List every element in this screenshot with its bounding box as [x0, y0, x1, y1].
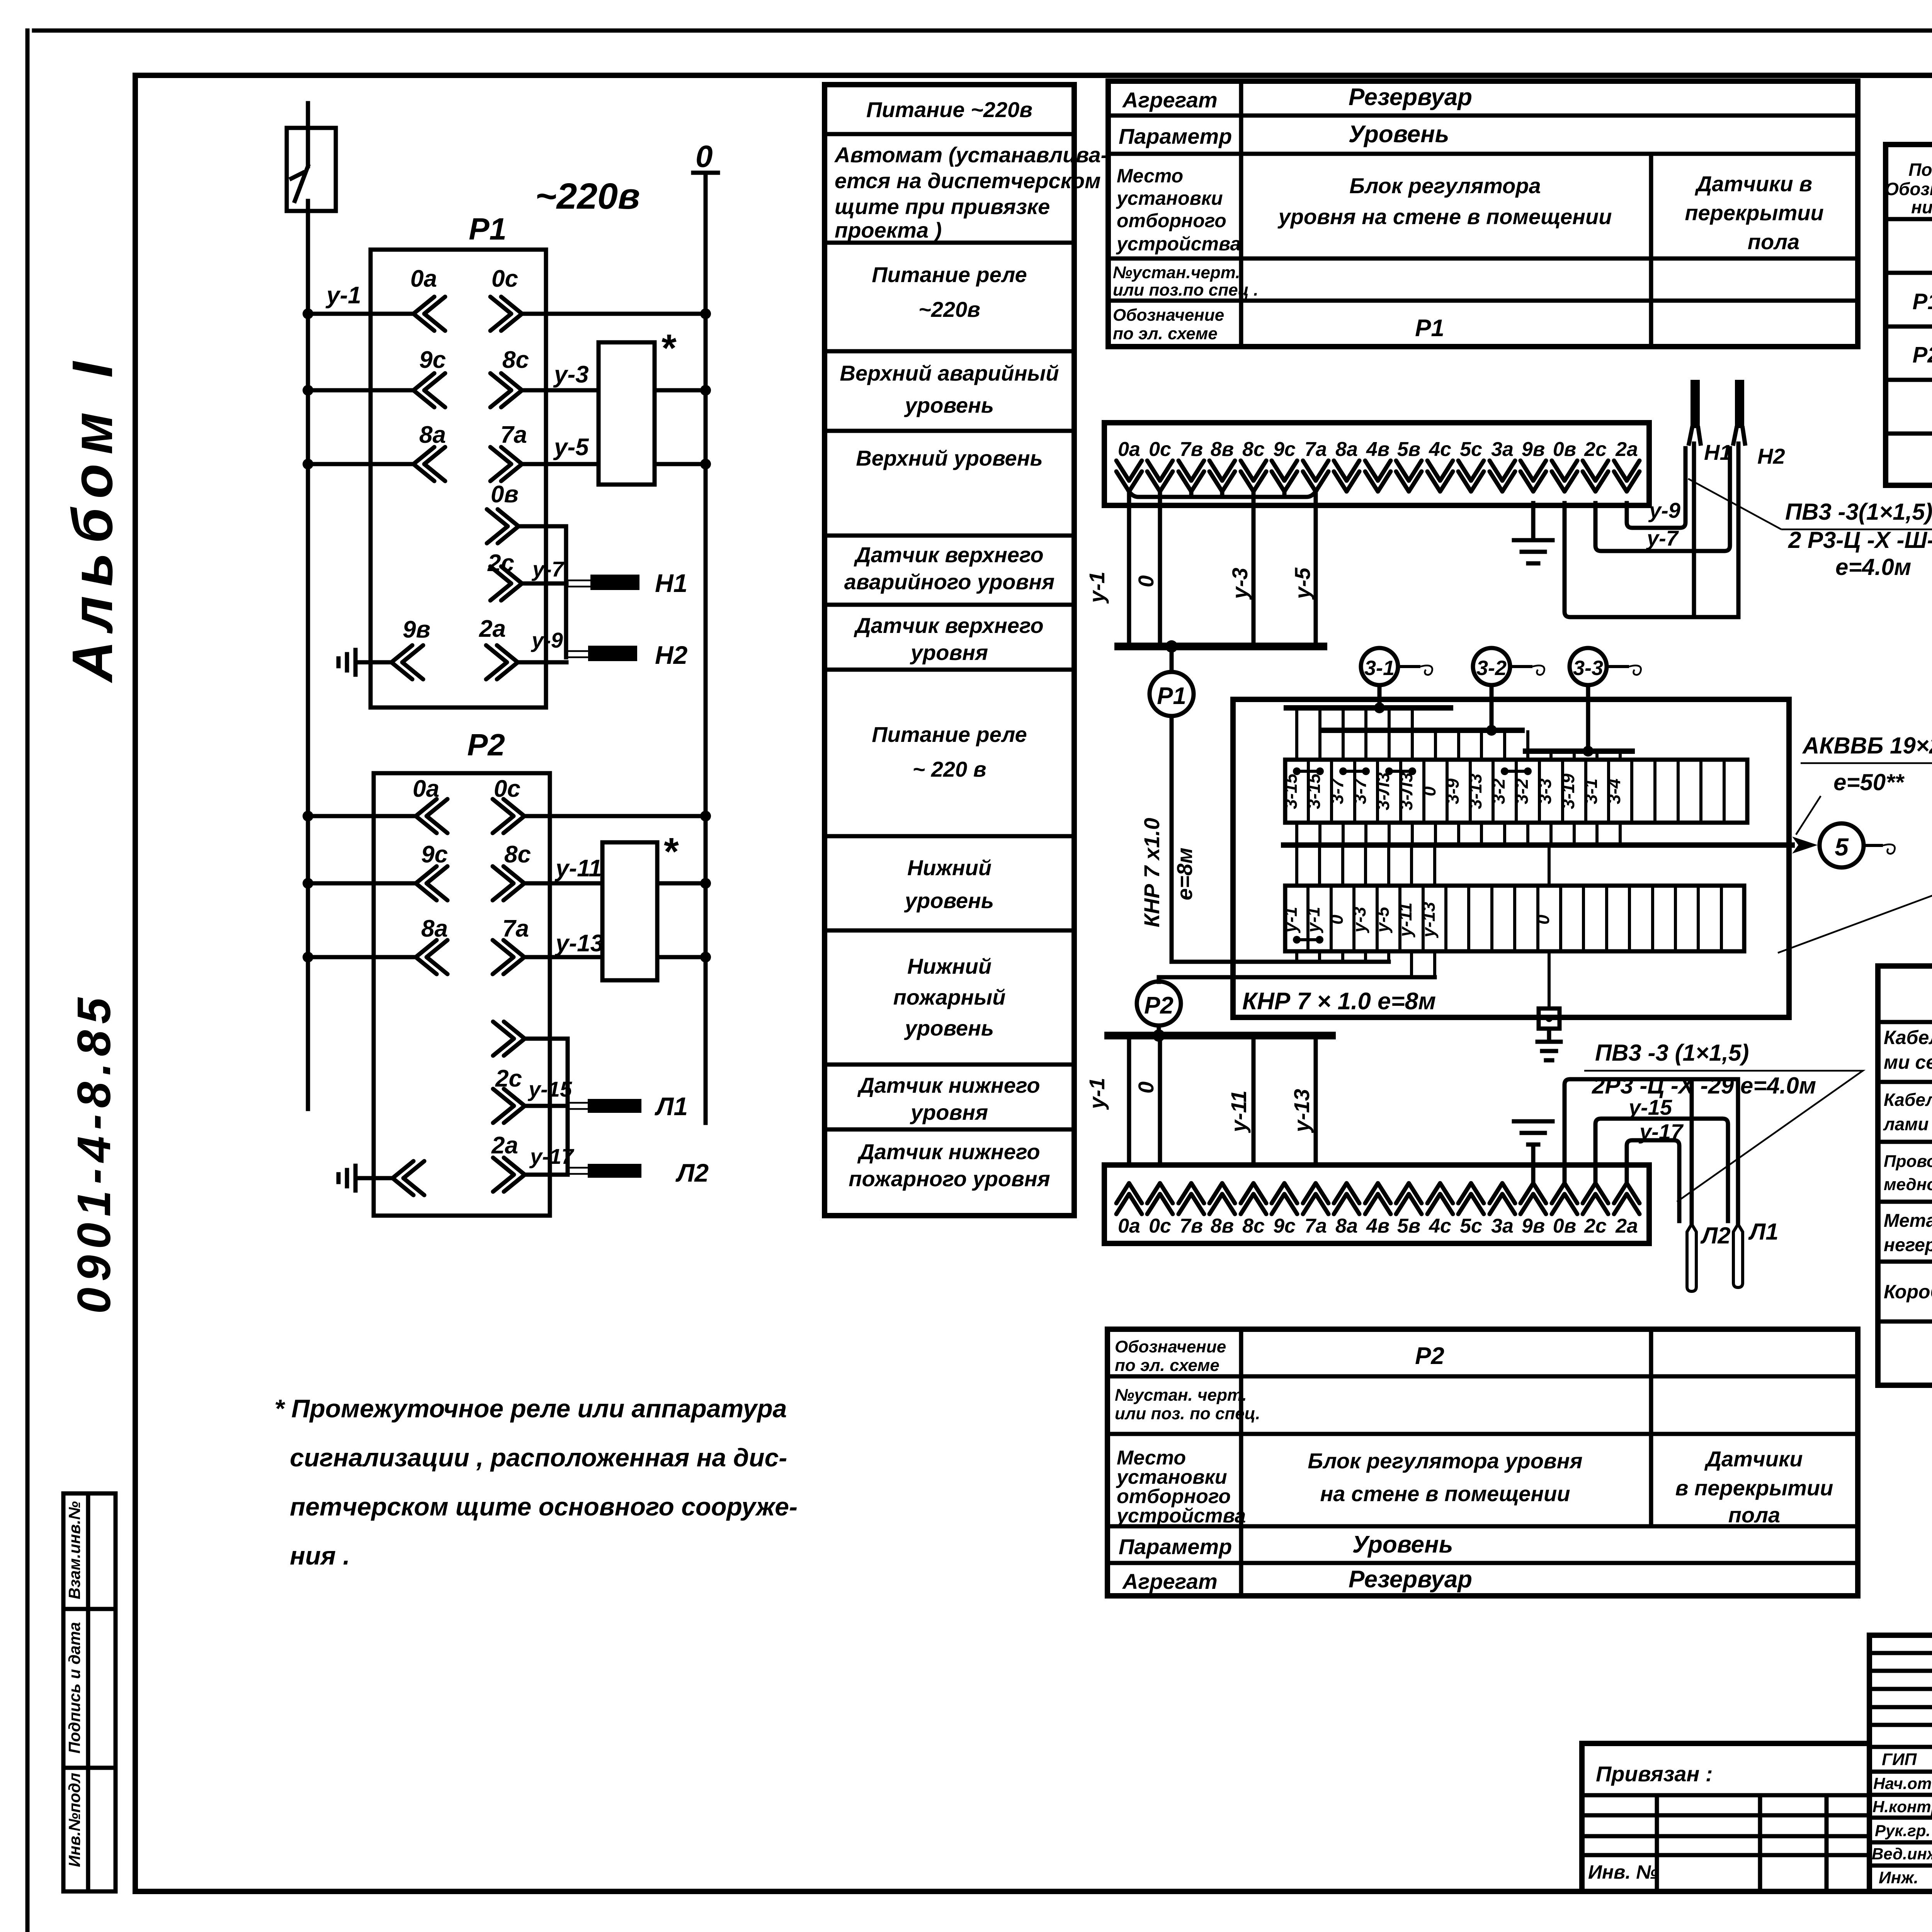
- sensor circle 3-2: [1473, 648, 1544, 685]
- svg-text:ется на диспетчерском: ется на диспетчерском: [835, 168, 1101, 193]
- svg-text:9в: 9в: [403, 616, 430, 643]
- svg-text:7в: 7в: [1180, 438, 1203, 461]
- terminal 0а XT2 contact: [1116, 1183, 1142, 1214]
- svg-text:у-11: у-11: [554, 855, 602, 882]
- svg-text:Взам.инв.№: Взам.инв.№: [65, 1501, 83, 1599]
- terminal 3а XT1 contact: [1490, 461, 1515, 492]
- ground at terminal 9v (XT1): [1514, 503, 1553, 563]
- ground electrode contact 9v: [338, 616, 430, 679]
- svg-text:8с: 8с: [1242, 1215, 1265, 1237]
- svg-text:ПВ3 -3 (1×1,5): ПВ3 -3 (1×1,5): [1595, 1040, 1749, 1066]
- svg-text:устройства: устройства: [1116, 233, 1241, 255]
- svg-text:8с: 8с: [502, 347, 529, 373]
- svg-text:2с: 2с: [495, 1065, 522, 1092]
- svg-text:5в: 5в: [1397, 438, 1420, 461]
- left description column table: [825, 85, 1074, 1216]
- svg-text:уровень: уровень: [904, 1016, 994, 1040]
- svg-text:отборного: отборного: [1117, 210, 1226, 231]
- svg-text:в перекрытии: в перекрытии: [1675, 1476, 1833, 1500]
- relay P2 coil box: [374, 773, 550, 1216]
- svg-text:8с: 8с: [1242, 438, 1265, 461]
- svg-text:Н1: Н1: [1704, 440, 1732, 464]
- node bus P1: [1118, 643, 1323, 650]
- svg-text:у-17: у-17: [529, 1144, 575, 1168]
- svg-text:медной жилой сеч. 1,5 мм²: медной жилой сеч. 1,5 мм²: [1884, 1175, 1932, 1194]
- bottom-left inventory stamp: [63, 1493, 116, 1891]
- contact 2c / wire y-7 to H1: [487, 550, 566, 600]
- svg-text:3-19: 3-19: [1558, 774, 1578, 809]
- electrode H1: [566, 569, 687, 597]
- svg-text:0в: 0в: [1553, 1215, 1576, 1237]
- svg-text:Верхний аварийный: Верхний аварийный: [840, 361, 1059, 385]
- svg-text:аварийного уровня: аварийного уровня: [844, 570, 1054, 594]
- wire y-3 / contacts 9c 8c: [303, 347, 711, 407]
- svg-text:Р1: Р1: [1913, 289, 1932, 314]
- svg-text:4в: 4в: [1366, 438, 1389, 461]
- terminal 9в XT1 contact: [1520, 461, 1546, 492]
- svg-text:Датчик верхнего: Датчик верхнего: [854, 543, 1043, 567]
- terminal 4в XT1 contact: [1365, 461, 1391, 492]
- svg-text:по эл. схеме: по эл. схеме: [1113, 324, 1218, 343]
- svg-text:Резервуар: Резервуар: [1349, 84, 1472, 111]
- svg-text:2а: 2а: [1615, 438, 1638, 461]
- svg-text:Нач.отд.: Нач.отд.: [1873, 1774, 1932, 1793]
- svg-text:пола: пола: [1748, 230, 1799, 254]
- svg-text:0с: 0с: [494, 776, 520, 802]
- svg-text:перекрытии: перекрытии: [1685, 201, 1823, 225]
- svg-text:Н2: Н2: [1757, 444, 1785, 468]
- svg-text:ния .: ния .: [290, 1541, 350, 1570]
- svg-text:или поз.по спец .: или поз.по спец .: [1113, 281, 1258, 299]
- svg-text:8а: 8а: [419, 422, 446, 448]
- svg-text:Обозначение: Обозначение: [1113, 306, 1224, 325]
- svg-text:№устан. черт.: №устан. черт.: [1115, 1386, 1247, 1405]
- svg-text:0а: 0а: [1118, 1215, 1140, 1237]
- svg-text:5: 5: [1835, 833, 1849, 861]
- svg-text:у-13: у-13: [1418, 902, 1439, 938]
- svg-text:у-15: у-15: [1628, 1095, 1672, 1119]
- contact (0v analog) jumper to L electrodes: [493, 1022, 568, 1175]
- svg-text:пожарного уровня: пожарного уровня: [849, 1167, 1050, 1191]
- terminal 8в XT1 contact: [1209, 461, 1235, 492]
- svg-text:9с: 9с: [421, 841, 448, 868]
- contact 2a / wire y-9 to H2: [479, 616, 566, 679]
- svg-text:щите при привязке: щите при привязке: [835, 194, 1050, 219]
- svg-text:3-15: 3-15: [1304, 773, 1324, 809]
- svg-text:№устан.черт.: №устан.черт.: [1113, 263, 1240, 282]
- svg-text:Блок регулятора: Блок регулятора: [1349, 173, 1541, 198]
- terminal 5с XT2 contact: [1458, 1183, 1484, 1214]
- svg-text:5с: 5с: [1460, 1215, 1482, 1237]
- terminal 3а XT2 contact: [1490, 1183, 1515, 1214]
- svg-text:у-5: у-5: [553, 434, 589, 461]
- svg-text:ПВ3 -3(1×1,5): ПВ3 -3(1×1,5): [1785, 499, 1932, 525]
- svg-text:*: *: [664, 830, 679, 873]
- svg-text:Р1: Р1: [1415, 315, 1444, 342]
- wires y-1,0,y-11,y-13 down to strip XT2: [1129, 1036, 1316, 1165]
- terminal 0с XT2 contact: [1147, 1183, 1173, 1214]
- bus to cable 5: [1284, 842, 1792, 848]
- terminal strip XT2 (lower, relay P2): [1104, 1165, 1649, 1243]
- cable circle 5: [1820, 823, 1895, 867]
- connectors row 3-xx to bus 5: [1297, 823, 1620, 845]
- svg-text:Р1: Р1: [469, 212, 507, 246]
- svg-text:Кабель с алюминиевыми жи: Кабель с алюминиевыми жи: [1884, 1090, 1932, 1110]
- svg-text:у-1: у-1: [1281, 907, 1301, 933]
- jumper with dots on row y-xx: [1293, 936, 1323, 944]
- svg-text:у-11: у-11: [1226, 1090, 1251, 1133]
- svg-text:Л1: Л1: [655, 1092, 688, 1121]
- jumpers with dots on row 3-xx: [1293, 767, 1532, 775]
- contact 2a / wire y-17 to L2: [491, 1132, 575, 1192]
- terminal 2с XT1 contact: [1583, 461, 1608, 492]
- terminal 8в XT2 contact: [1209, 1183, 1235, 1214]
- footnote about intermediate relay: [274, 1394, 798, 1570]
- svg-text:0а: 0а: [1118, 438, 1140, 461]
- terminal 9с XT1 contact: [1272, 461, 1297, 492]
- svg-text:Р2: Р2: [1913, 342, 1932, 367]
- tank electrode L2: [1687, 1223, 1731, 1291]
- svg-text:Датчики: Датчики: [1704, 1447, 1803, 1471]
- svg-text:у-3: у-3: [1228, 568, 1252, 600]
- circle node P2: [1137, 981, 1181, 1026]
- svg-text:уровня на стене в помещении: уровня на стене в помещении: [1277, 204, 1612, 229]
- terminal 2а XT1 contact: [1614, 461, 1639, 492]
- terminal 8а XT2 contact: [1334, 1183, 1359, 1214]
- svg-text:9с: 9с: [419, 347, 446, 373]
- svg-text:Н1: Н1: [655, 569, 687, 597]
- svg-text:у-7: у-7: [1646, 526, 1679, 550]
- svg-text:Автомат (устанавлива-: Автомат (устанавлива-: [834, 143, 1108, 167]
- svg-text:7а: 7а: [1304, 438, 1327, 461]
- svg-text:5в: 5в: [1397, 1215, 1420, 1237]
- svg-text:9в: 9в: [1522, 438, 1545, 461]
- svg-text:4в: 4в: [1366, 1215, 1389, 1237]
- svg-text:3-1: 3-1: [1364, 656, 1395, 680]
- svg-text:е=4.0м: е=4.0м: [1835, 554, 1911, 580]
- svg-text:уровня: уровня: [910, 1100, 988, 1124]
- svg-text:3-7: 3-7: [1350, 777, 1370, 804]
- svg-text:2с: 2с: [1584, 438, 1607, 461]
- svg-text:Резервуар: Резервуар: [1349, 1566, 1472, 1593]
- svg-text:у-9: у-9: [1648, 498, 1680, 522]
- svg-text:3-1: 3-1: [1581, 779, 1601, 804]
- svg-text:3-9: 3-9: [1442, 778, 1463, 804]
- svg-text:установки: установки: [1116, 187, 1223, 209]
- terminal 8с XT1 contact: [1241, 461, 1266, 492]
- svg-text:у-3: у-3: [553, 361, 589, 388]
- svg-text:Р2: Р2: [1144, 992, 1173, 1019]
- terminal 7а XT1 contact: [1303, 461, 1328, 492]
- svg-text:3-7: 3-7: [1327, 777, 1347, 804]
- terminal 0а XT1 contact: [1116, 461, 1142, 492]
- sensor buses: [1286, 708, 1632, 751]
- svg-text:Датчики в: Датчики в: [1695, 172, 1812, 196]
- svg-text:Н.контр.: Н.контр.: [1872, 1798, 1932, 1816]
- svg-text:проекта ): проекта ): [835, 218, 942, 242]
- svg-text:2а: 2а: [479, 616, 506, 642]
- phase feed wire: [306, 211, 310, 1109]
- drops from buses to row cells: [1297, 708, 1620, 760]
- svg-text:Нижний: Нижний: [907, 855, 992, 880]
- svg-text:у-7: у-7: [531, 557, 565, 581]
- wire row 0a 0c (P2): [303, 776, 711, 833]
- svg-text:0в: 0в: [1553, 438, 1576, 461]
- terminal 0в XT1 contact: [1552, 461, 1577, 492]
- wire y-5 / contacts 8a 7a: [303, 422, 711, 481]
- svg-text:* Промежуточное реле или аппар: * Промежуточное реле или аппаратура: [274, 1394, 787, 1423]
- svg-text:негерметический: негерметический: [1884, 1235, 1932, 1255]
- svg-text:0: 0: [1419, 786, 1439, 796]
- svg-text:7в: 7в: [1180, 1215, 1203, 1237]
- intermediate relay box * (P2): [602, 842, 657, 980]
- terminal 7в XT1 contact: [1179, 461, 1204, 492]
- electrode L2: [568, 1158, 709, 1187]
- svg-text:7а: 7а: [502, 915, 529, 942]
- svg-text:Датчик нижнего: Датчик нижнего: [857, 1073, 1040, 1097]
- ground electrode contact (P2): [338, 1161, 424, 1195]
- terminal row 3-xx: [1285, 760, 1747, 823]
- svg-text:9в: 9в: [1522, 1215, 1545, 1237]
- terminal 0с XT1 contact: [1147, 461, 1173, 492]
- wire y-1 / contacts 0a 0c: [303, 265, 711, 331]
- svg-text:по эл. схеме: по эл. схеме: [1115, 1356, 1219, 1375]
- svg-text:0с: 0с: [492, 265, 518, 292]
- electrode H2: [566, 641, 688, 669]
- svg-text:у-9: у-9: [531, 628, 563, 652]
- svg-text:Параметр: Параметр: [1119, 124, 1232, 148]
- svg-text:8с: 8с: [504, 841, 531, 868]
- svg-text:АКВВБ 19×2.5: АКВВБ 19×2.5: [1802, 733, 1932, 759]
- terminal 9в XT2 contact: [1520, 1183, 1546, 1214]
- tank electrode L1: [1733, 1219, 1779, 1287]
- svg-text:е=8м: е=8м: [1172, 848, 1197, 900]
- svg-text:3а: 3а: [1491, 438, 1514, 461]
- svg-text:Рук.гр.: Рук.гр.: [1875, 1821, 1930, 1840]
- svg-text:Л2: Л2: [675, 1158, 709, 1187]
- svg-text:Коробка соединительная: Коробка соединительная: [1884, 1281, 1932, 1303]
- terminal 0в XT2 contact: [1552, 1183, 1577, 1214]
- terminal labels row y-xx: [1281, 902, 1553, 938]
- svg-text:3-2: 3-2: [1512, 778, 1532, 804]
- cable label PVZ-3 upper: [1688, 479, 1932, 580]
- svg-text:*: *: [662, 327, 677, 370]
- svg-text:2 Р3-Ц -Х -Ш-10: 2 Р3-Ц -Х -Ш-10: [1788, 527, 1932, 553]
- svg-text:у-1: у-1: [1303, 907, 1323, 933]
- svg-text:0901-4-8.85: 0901-4-8.85: [68, 992, 120, 1314]
- intermediate relay box * (P1): [599, 342, 655, 485]
- terminal 7в XT2 contact: [1179, 1183, 1204, 1214]
- svg-text:лами бранированный сеч.2.5мм²: лами бранированный сеч.2.5мм²: [1883, 1114, 1932, 1134]
- terminal 4в XT2 contact: [1365, 1183, 1391, 1214]
- label 2kc-40 with leader: [1778, 865, 1932, 953]
- svg-text:ГИП: ГИП: [1882, 1750, 1917, 1769]
- svg-text:8а: 8а: [1335, 1215, 1358, 1237]
- svg-text:3-2: 3-2: [1488, 778, 1509, 804]
- cable label PVZ-3 lower with leader: [1584, 1040, 1863, 1202]
- terminal 4с XT1 contact: [1427, 461, 1453, 492]
- terminal 5в XT1 contact: [1396, 461, 1422, 492]
- svg-text:Место: Место: [1117, 165, 1183, 187]
- terminal 2а XT2 contact: [1614, 1183, 1639, 1214]
- svg-text:3-13: 3-13: [1465, 774, 1485, 809]
- svg-text:пожарный: пожарный: [893, 985, 1006, 1009]
- svg-text:у-1: у-1: [325, 282, 361, 309]
- svg-text:или поз. по спец.: или поз. по спец.: [1115, 1404, 1260, 1423]
- svg-text:Обозначение: Обозначение: [1115, 1337, 1226, 1356]
- svg-text:2а: 2а: [1615, 1215, 1638, 1237]
- svg-text:у-13: у-13: [1289, 1089, 1314, 1133]
- svg-text:8а: 8а: [421, 915, 448, 942]
- svg-text:петчерском щите основного с: петчерском щите основного сооруже-: [290, 1492, 798, 1521]
- svg-text:у-1: у-1: [1085, 1078, 1109, 1110]
- terminal 4с XT2 contact: [1427, 1183, 1453, 1214]
- svg-text:Инж.: Инж.: [1879, 1868, 1918, 1887]
- strip jumper bus inside XT1: [1129, 492, 1316, 497]
- svg-text:Инв.№подл: Инв.№подл: [65, 1773, 83, 1867]
- svg-text:Параметр: Параметр: [1119, 1534, 1232, 1559]
- svg-text:5с: 5с: [1460, 438, 1482, 461]
- svg-text:Вед.инж.: Вед.инж.: [1872, 1845, 1932, 1863]
- cable wires y-1,0,y-3,y-5 down to P1 node: [1129, 493, 1316, 646]
- svg-text:~ 220 в: ~ 220 в: [912, 757, 986, 781]
- wire y-7: terminal 2c to H2: [1595, 448, 1730, 551]
- svg-text:уровень: уровень: [904, 393, 994, 417]
- circle node P1: [1170, 646, 1174, 672]
- svg-text:Инв. №: Инв. №: [1588, 1861, 1658, 1883]
- terminal labels row 3-xx: [1281, 772, 1624, 811]
- terminal 5в XT2 contact: [1396, 1183, 1422, 1214]
- contact 2c / wire y-15 to L1: [493, 1065, 572, 1123]
- svg-text:3-Л3: 3-Л3: [1373, 772, 1393, 811]
- terminal 2с XT2 contact: [1583, 1183, 1608, 1214]
- svg-text:8а: 8а: [1335, 438, 1358, 461]
- svg-text:Поз.: Поз.: [1908, 160, 1932, 180]
- terminal 9с XT2 contact: [1272, 1183, 1297, 1214]
- svg-text:у-15: у-15: [527, 1077, 572, 1101]
- svg-text:Агрегат: Агрегат: [1122, 1569, 1218, 1594]
- wire 0v: terminal 0v to electrode stems: [1565, 503, 1738, 617]
- svg-text:3-3: 3-3: [1573, 656, 1603, 680]
- svg-text:Датчик нижнего: Датчик нижнего: [857, 1139, 1040, 1164]
- svg-text:0а: 0а: [410, 265, 437, 292]
- svg-text:4с: 4с: [1429, 438, 1451, 461]
- svg-text:0: 0: [1134, 575, 1158, 587]
- svg-text:4с: 4с: [1429, 1215, 1451, 1237]
- wires from row y-xx to relay circuits: [1297, 951, 1435, 977]
- svg-text:Обозначе: Обозначе: [1885, 179, 1932, 199]
- svg-text:устройства: устройства: [1116, 1505, 1246, 1527]
- svg-text:Р2: Р2: [467, 728, 505, 762]
- svg-text:у-13: у-13: [554, 930, 604, 957]
- sensor circle 3-3: [1570, 648, 1641, 685]
- svg-text:Датчик верхнего: Датчик верхнего: [854, 613, 1043, 638]
- connectors bus5 to row y-xx: [1297, 845, 1549, 886]
- svg-text:Привязан :: Привязан :: [1596, 1762, 1713, 1786]
- svg-text:7а: 7а: [500, 422, 527, 448]
- svg-text:Альбом I: Альбом I: [61, 352, 124, 684]
- svg-text:Л2: Л2: [1700, 1223, 1731, 1248]
- svg-text:3а: 3а: [1491, 1215, 1514, 1237]
- svg-text:3-4: 3-4: [1604, 779, 1624, 804]
- svg-text:Агрегат: Агрегат: [1122, 88, 1218, 112]
- neutral 0 wire: [693, 173, 718, 1123]
- svg-text:Питание реле: Питание реле: [872, 722, 1027, 747]
- terminal 7а XT2 contact: [1303, 1183, 1328, 1214]
- wire 0v to tank electrodes L: [1565, 1079, 1738, 1224]
- svg-text:3-2: 3-2: [1476, 656, 1507, 680]
- svg-text:пола: пола: [1728, 1503, 1780, 1527]
- electrode H2 (tank): [1733, 380, 1785, 617]
- svg-text:у-5: у-5: [1372, 906, 1393, 933]
- svg-text:Питание реле: Питание реле: [872, 262, 1027, 287]
- svg-text:Металлорукав гибкий: Металлорукав гибкий: [1884, 1211, 1932, 1231]
- svg-text:3-Л3: 3-Л3: [1396, 772, 1416, 811]
- svg-text:у-5: у-5: [1290, 567, 1315, 600]
- svg-text:у-1: у-1: [1085, 571, 1109, 604]
- wire y-13 / contacts 8a 7a (P2): [303, 915, 711, 974]
- terminal 8с XT2 contact: [1241, 1183, 1266, 1214]
- svg-text:~220в: ~220в: [918, 297, 980, 321]
- svg-text:0с: 0с: [1149, 438, 1171, 461]
- wire y-9: terminal 2a to H1: [1627, 448, 1685, 528]
- node bus P2: [1108, 1032, 1332, 1039]
- svg-text:0с: 0с: [1149, 1215, 1171, 1237]
- svg-text:~220в: ~220в: [535, 176, 640, 217]
- svg-text:КНР 7 × 1.0 е=8м: КНР 7 × 1.0 е=8м: [1242, 988, 1436, 1015]
- svg-text:Н2: Н2: [655, 641, 688, 669]
- sensor circle 3-1: [1361, 648, 1432, 685]
- terminal row y-xx: [1285, 886, 1744, 951]
- svg-text:Уровень: Уровень: [1349, 121, 1449, 148]
- svg-text:0: 0: [696, 139, 713, 173]
- svg-text:9с: 9с: [1273, 1215, 1296, 1237]
- svg-text:сигнализации , расположенная: сигнализации , расположенная на дис-: [290, 1443, 787, 1472]
- svg-text:Нижний: Нижний: [907, 954, 992, 978]
- svg-text:0: 0: [1134, 1082, 1158, 1094]
- svg-text:КНР 7 х1.0: КНР 7 х1.0: [1139, 818, 1164, 927]
- svg-text:7а: 7а: [1304, 1215, 1327, 1237]
- svg-text:0: 0: [1533, 915, 1553, 925]
- svg-text:Л1: Л1: [1748, 1219, 1779, 1245]
- cable label AKVVB 19x2.5: [1796, 733, 1932, 835]
- svg-text:уровня: уровня: [910, 640, 988, 665]
- svg-text:0: 0: [1327, 915, 1347, 925]
- svg-text:Провод установочный гибкий с: Провод установочный гибкий с: [1884, 1152, 1932, 1171]
- svg-text:3-3: 3-3: [1535, 778, 1555, 804]
- svg-text:2с: 2с: [1584, 1215, 1607, 1237]
- svg-text:0в: 0в: [491, 481, 519, 508]
- ground above terminal 9v (XT2): [1514, 1121, 1553, 1183]
- shield terminal of box: [1537, 951, 1561, 1060]
- electrode L1: [568, 1092, 688, 1121]
- svg-text:Подпись и дата: Подпись и дата: [65, 1622, 83, 1753]
- svg-text:Верхний уровень: Верхний уровень: [856, 446, 1043, 470]
- electrode H1 (tank): [1689, 380, 1732, 617]
- cable KNR 7x1.0 riser: [1170, 716, 1174, 962]
- wire y-15: [1595, 1095, 1728, 1221]
- svg-text:8в: 8в: [1211, 438, 1234, 461]
- terminal 5с XT1 contact: [1458, 461, 1484, 492]
- svg-text:Кабель с медными жила-: Кабель с медными жила-: [1884, 1027, 1932, 1048]
- binding table (Privyazan): [1582, 1743, 1869, 1891]
- svg-text:на стене в помещении: на стене в помещении: [1320, 1481, 1570, 1506]
- svg-text:Р2: Р2: [1415, 1343, 1444, 1369]
- svg-text:Блок регулятора уровня: Блок регулятора уровня: [1308, 1449, 1582, 1473]
- svg-text:8в: 8в: [1211, 1215, 1234, 1237]
- svg-text:уровень: уровень: [904, 888, 994, 913]
- wire y-11 / contacts 9c 8c (P2): [303, 841, 711, 900]
